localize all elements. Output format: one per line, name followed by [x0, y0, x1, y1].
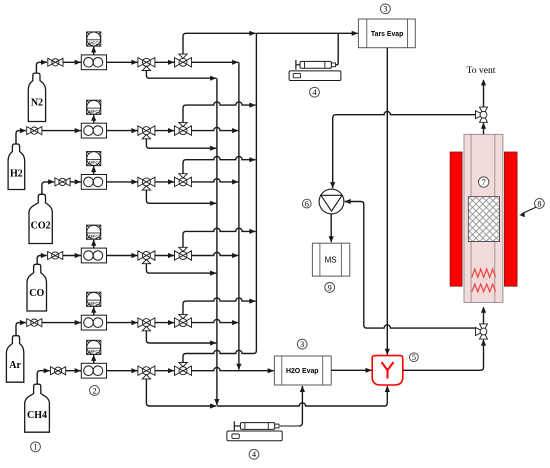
three-way valve V2b: [138, 126, 155, 139]
wire valve V6c evaporator port to manifold M3: [183, 350, 256, 362]
wire valve V3a to filter F3: [70, 181, 81, 183]
gas cylinder H2: [8, 144, 25, 190]
wire syringe pump SP2 to H2O Evap: [299, 386, 302, 426]
svg-text:MFC: MFC: [89, 301, 100, 306]
wire valve V2a to filter F2: [42, 130, 81, 132]
label circle 3 (H2O evaporator): [297, 339, 307, 349]
label circle 3 (Tars evaporator): [381, 4, 391, 14]
gas cylinder N2: [28, 73, 45, 121]
wire valve V3b vent port to manifold M1: [146, 190, 216, 203]
filter F1: [81, 55, 106, 70]
gas cylinder CH4: [25, 384, 50, 432]
mass flow controller MFC4: [87, 225, 101, 239]
wire valve V4c to manifold M2: [192, 252, 239, 255]
evaporator Tars Evap: [358, 19, 415, 48]
wire reactor top valve to pump branch: [333, 112, 476, 189]
label circle 9 (mass spectrometer): [325, 283, 335, 293]
wire valve V4b vent port to manifold M1: [146, 264, 216, 273]
wire valve V3c evaporator port to manifold M3: [183, 157, 256, 174]
label circle 1 (gas cylinders): [31, 442, 41, 452]
shutoff valve V5a: [27, 319, 42, 327]
three-way valve V4c: [175, 247, 192, 260]
wire filter F3 to MFC3: [93, 166, 95, 174]
wire bottom valve to reactor: [483, 308, 485, 324]
reactor tube: [464, 134, 503, 302]
svg-text:Tars Evap: Tars Evap: [371, 31, 403, 38]
wire syringe pump SP1 to Tars Evap feed line: [336, 33, 338, 65]
svg-text:MFC: MFC: [89, 349, 100, 354]
gas cylinder CO: [27, 264, 47, 311]
wire valve V1c to Tars Evap feed line: [183, 33, 256, 54]
syringe pump SP2 (water feed): [234, 421, 299, 431]
mass flow controller MFC2: [87, 100, 101, 114]
wire valve V2c to manifold M2: [192, 127, 239, 130]
wire valve V2c evaporator port to manifold M3: [183, 102, 256, 123]
wire filter F2 to MFC2: [93, 115, 95, 123]
label circle 8 (furnace): [535, 199, 545, 209]
wire H2O Evap to Y-mixer: [331, 369, 372, 371]
wire filter F2 to valve V2b: [107, 130, 138, 132]
svg-text:MS: MS: [325, 255, 337, 264]
wire valve V5b to valve V5c: [155, 322, 174, 324]
wire valve V6a to filter F6: [66, 370, 82, 372]
filter F6: [81, 363, 106, 378]
manifold M1 vent header: [216, 78, 218, 405]
syringe pump SP1 base: [289, 71, 341, 81]
vacuum pump P1: [319, 189, 344, 214]
wire valve V5b vent port to manifold M1: [146, 331, 216, 343]
svg-text:MFC: MFC: [89, 160, 100, 165]
wire filter F5 to valve V5b: [107, 322, 138, 324]
svg-text:5: 5: [412, 353, 416, 362]
shutoff valve V6a: [51, 367, 66, 375]
wire cylinder CH4 to valve V6a: [37, 371, 50, 385]
wire valve V5c evaporator port to manifold M3: [183, 298, 256, 314]
mass spectrometer MS: [312, 243, 349, 276]
wire cylinder CO2 to valve V3a: [42, 182, 54, 194]
wire valve V1c to manifold M2: [192, 61, 239, 63]
shutoff valve V1a: [48, 58, 63, 66]
wire pump P1 to MS: [330, 214, 332, 242]
svg-text:CO2: CO2: [31, 221, 51, 232]
label circle 6 (vacuum pump): [302, 199, 311, 208]
wire top valve to vent: [483, 80, 485, 107]
mass flow controller MFC5: [87, 292, 101, 306]
three-way valve V6b: [138, 366, 155, 379]
wire valve V4c evaporator port to manifold M3: [183, 228, 256, 247]
wire valve V4b to valve V4c: [155, 255, 174, 257]
svg-text:To vent: To vent: [467, 65, 496, 76]
wire Tars Evap outlet to Y-mixer: [386, 48, 388, 355]
manifold M2 H2O evaporator header: [238, 62, 240, 369]
manifold M3 Tars evaporator header: [255, 33, 257, 350]
filter F5: [81, 315, 106, 330]
wire valve V5c to manifold M2: [192, 319, 239, 322]
svg-text:2: 2: [92, 386, 96, 395]
wire cylinder H2 to valve V2a: [16, 131, 26, 144]
filter F3: [81, 175, 106, 190]
wire filter F1 to MFC1: [93, 47, 95, 55]
svg-text:Ar: Ar: [9, 360, 21, 371]
catalyst bed: [468, 197, 499, 242]
wire valve V3c to manifold M2: [192, 179, 239, 182]
wire valve V4a to filter F4: [63, 255, 82, 257]
wire valve V1b to valve V1c: [155, 61, 174, 63]
three-way valve V5c: [175, 314, 192, 327]
wire filter F3 to valve V3b: [107, 181, 138, 183]
svg-text:3: 3: [383, 5, 387, 14]
three-way valve V2c: [175, 122, 192, 135]
syringe pump SP1 (tars feed): [296, 60, 337, 70]
svg-text:MFC: MFC: [89, 109, 100, 114]
svg-text:MFC: MFC: [89, 41, 100, 46]
svg-text:7: 7: [482, 178, 486, 187]
wire valve V2b vent port to manifold M1: [146, 139, 216, 148]
furnace left block: [450, 152, 462, 286]
wire valve V1a to filter F1: [63, 61, 81, 63]
mixer Y1: [372, 356, 403, 385]
mass flow controller MFC3: [87, 152, 101, 166]
wire filter F6 to valve V6b: [107, 370, 138, 372]
wire filter F4 to valve V4b: [107, 255, 138, 257]
svg-text:CO: CO: [29, 288, 44, 299]
svg-text:H2O Evap: H2O Evap: [286, 368, 319, 375]
three-way valve V5b: [138, 318, 155, 331]
furnace right block: [504, 152, 517, 286]
svg-text:CH4: CH4: [27, 410, 47, 421]
mass flow controller MFC1: [87, 32, 101, 46]
shutoff valve V4a: [48, 252, 63, 260]
gas cylinder CO2: [29, 194, 52, 243]
svg-text:3: 3: [300, 340, 304, 349]
wire valve V6c to H2O Evap: [192, 368, 274, 371]
wire Tars Evap feed line: [256, 32, 358, 34]
wire reactor bottom valve to pump P1: [345, 202, 476, 329]
three-way valve V8 (reactor inlet): [476, 324, 488, 339]
furnace pointer arrow: [522, 207, 536, 214]
three-way valve V4b: [138, 251, 155, 264]
wire cylinder Ar to valve V5a: [16, 323, 26, 336]
svg-text:N2: N2: [31, 98, 43, 109]
filter F2: [81, 123, 106, 138]
mass flow controller MFC6: [87, 340, 101, 354]
wire filter F5 to MFC5: [93, 307, 95, 315]
label circle 5 (mixer): [410, 353, 419, 362]
svg-text:8: 8: [537, 199, 541, 208]
svg-text:6: 6: [305, 200, 309, 209]
svg-text:H2: H2: [10, 169, 23, 180]
wire Y-mixer to reactor bottom valve: [403, 340, 484, 370]
wire valve V2b to valve V2c: [155, 130, 174, 132]
wire filter F6 to MFC6: [93, 355, 95, 363]
wire cylinder N2 to valve V1a: [36, 62, 47, 73]
three-way valve V3c: [175, 174, 192, 187]
three-way valve V1c: [175, 54, 192, 67]
gas cylinder Ar: [6, 336, 23, 383]
spring support 2: [472, 284, 496, 292]
svg-text:MFC: MFC: [89, 234, 100, 239]
wire valve V1b vent port to manifold M1: [146, 71, 216, 79]
wire valve V6b vent port to manifold M1: [146, 379, 216, 406]
shutoff valve V3a: [55, 178, 70, 186]
label circle 7 (reactor): [479, 177, 489, 187]
wire filter F1 to valve V1b: [107, 61, 138, 63]
svg-text:1: 1: [33, 443, 37, 452]
wire reactor to top valve: [483, 123, 485, 134]
label circle 4 (syringe pump, water): [249, 449, 259, 459]
svg-text:9: 9: [328, 283, 332, 292]
wire valve V3b to valve V3c: [155, 181, 174, 183]
svg-text:4: 4: [252, 450, 256, 459]
three-way valve V1b: [138, 58, 155, 71]
spring support 1: [472, 269, 496, 277]
three-way valve V7 (reactor outlet): [476, 107, 488, 122]
shutoff valve V2a: [27, 127, 42, 135]
wire valve V6b to valve V6c: [155, 370, 174, 372]
three-way valve V6c: [175, 363, 192, 376]
wire filter F4 to MFC4: [93, 240, 95, 248]
evaporator H2O Evap: [274, 356, 331, 385]
syringe pump SP2 base: [227, 431, 282, 441]
label circle 4 (syringe pump, tars): [310, 87, 320, 97]
filter F4: [81, 248, 106, 263]
wire valve V5a to filter F5: [42, 322, 81, 324]
wire bottom collector to Y-mixer: [217, 386, 387, 406]
wire cylinder CO to valve V4a: [37, 256, 47, 265]
svg-text:4: 4: [312, 88, 316, 97]
three-way valve V3b: [138, 177, 155, 190]
label circle 2 (filter): [90, 386, 100, 396]
